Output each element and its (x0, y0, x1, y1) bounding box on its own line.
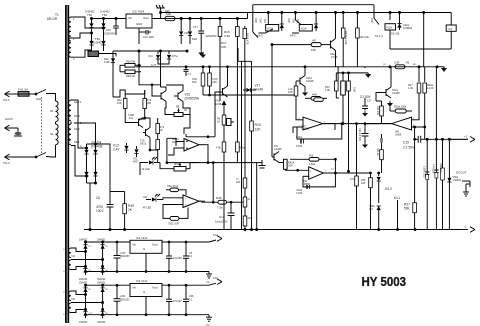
secondary top taps (71, 17, 85, 21)
resistor R4A (123, 94, 127, 118)
switch SA1a (31, 90, 52, 95)
AUX SUPPLY BLOCK A (79, 233, 222, 284)
svg-text:N1: N1 (50, 109, 54, 113)
mid-right columns x338/343/349/358 (337, 67, 339, 81)
resistor R51 (341, 12, 345, 67)
svg-text:(NC): (NC) (260, 18, 263, 23)
op-amp OA3 left-pointing (385, 117, 418, 130)
resistor R7A (143, 90, 147, 118)
main secondary taps to bridge (71, 100, 87, 148)
relay K2A box2 (299, 25, 312, 32)
wire drop right (373, 5, 375, 18)
relay K4 pins (450, 13, 452, 50)
svg-text:4R-C4b: 4R-C4b (360, 35, 369, 39)
wire y202 R45 (201, 201, 218, 203)
svg-text:C16 100n: C16 100n (143, 35, 155, 39)
junction dots cluster (144, 117, 146, 119)
svg-text:OMP: OMP (172, 141, 178, 144)
LED V11 (146, 194, 163, 202)
svg-text:43R: 43R (166, 12, 171, 16)
ground C17 (198, 50, 204, 56)
small part Y2 (380, 134, 383, 143)
svg-text:GND: GND (136, 22, 142, 26)
cap on x427 (425, 172, 429, 180)
cap C36 (183, 284, 189, 315)
sense resistor R10b (208, 66, 212, 95)
svg-text:10R: 10R (288, 165, 293, 168)
OA3 wires (418, 101, 419, 120)
svg-text:12V: 12V (213, 233, 218, 237)
resistor R24 (380, 143, 384, 174)
aux winding A (69, 248, 71, 258)
svg-text:W1a: W1a (174, 163, 180, 166)
vertical x442.5 (442, 139, 444, 229)
cap C17 (198, 19, 204, 51)
switch K4-4 (374, 18, 379, 25)
aux A bottom rail (86, 271, 210, 273)
junction x272 (271, 44, 273, 46)
aux A top rail (86, 241, 210, 243)
rail B y18.5 regulator out (152, 18, 248, 20)
svg-text:(R1): (R1) (213, 81, 218, 84)
svg-text:K4.2: K4.2 (385, 187, 392, 191)
svg-text:Vout: Vout (152, 286, 158, 290)
cap C19 (414, 136, 468, 143)
wire y73 (336, 72, 368, 74)
aux winding B (69, 291, 71, 301)
svg-text:2.2 50V: 2.2 50V (403, 146, 415, 150)
vertical x139 (138, 51, 140, 72)
bridge junctions (86, 147, 88, 149)
svg-text:C17: C17 (367, 100, 372, 103)
wire y67 cap C18 (184, 66, 189, 76)
svg-text:G: G (143, 290, 145, 294)
svg-text:2200/35V: 2200/35V (104, 32, 115, 36)
svg-text:1N4002: 1N4002 (79, 278, 88, 281)
resistor R42 (166, 188, 183, 192)
bridge bottom out (87, 182, 96, 184)
svg-text:R8: R8 (176, 105, 180, 109)
svg-text:50K: 50K (404, 207, 411, 211)
svg-text:0.3R: 0.3R (394, 62, 399, 65)
wire x423 drop (423, 12, 425, 67)
zener V13 (124, 143, 128, 153)
ground arrow y73 (365, 73, 371, 78)
vertical x427 (426, 139, 428, 229)
bridge diode D2 (93, 150, 97, 154)
chassis ground mid (258, 160, 266, 168)
svg-text:N1: N1 (50, 132, 54, 136)
relay K2A box1 pins (267, 12, 269, 25)
junction dots rail y51 (138, 50, 140, 52)
svg-text:DC-CB: DC-CB (391, 32, 399, 36)
svg-text:CL: CL (206, 280, 210, 284)
svg-text:1N4002: 1N4002 (79, 239, 88, 242)
svg-text:47R/16V: 47R/16V (432, 164, 435, 174)
cap C13 (228, 201, 246, 229)
jack ground (463, 190, 469, 196)
vertical x436.4 full (435, 67, 437, 230)
cap C31 (166, 241, 172, 272)
vertical x272 (271, 45, 273, 157)
transistor V20A (328, 39, 336, 51)
svg-text:R19: R19 (255, 123, 261, 127)
relay K2A box2 pins (294, 12, 301, 25)
svg-text:C19: C19 (403, 141, 409, 145)
terminal DC+ (449, 137, 475, 143)
switch K4-3b (259, 29, 274, 33)
svg-text:K4.1: K4.1 (394, 196, 401, 200)
IC3 gnd pin (145, 253, 147, 272)
resistor R33 on x370 (369, 172, 373, 229)
svg-text:200: 200 (236, 181, 241, 184)
primary winding N1 upper (56, 101, 59, 122)
cap 2.2 50V top (362, 98, 368, 110)
resistor R22 (380, 101, 384, 116)
terminal XS2 (AC in bottom) (5, 154, 10, 160)
bridge vertical 1 (86, 144, 88, 183)
svg-text:1K: 1K (184, 108, 187, 112)
dashed link SA1 (41, 97, 43, 153)
svg-text:(2N3055A: (2N3055A (185, 97, 200, 101)
V20A collector wire (335, 12, 337, 39)
wire OA1 input stubs (176, 142, 180, 147)
regulator U2 7824 (126, 14, 152, 28)
svg-text:R45: R45 (216, 196, 222, 200)
OA4 out wire (335, 172, 370, 174)
svg-text:N4148: N4148 (254, 88, 264, 92)
regulator IC3 (130, 240, 162, 253)
svg-text:Vout: Vout (143, 16, 149, 20)
cap C34 (114, 284, 121, 315)
zener V16 (179, 19, 183, 45)
primary winding N1 lower (56, 124, 59, 145)
transistor V24 (272, 152, 279, 163)
resistor R45 (218, 200, 245, 204)
bridge diode D3 (84, 172, 88, 176)
long vertical x241.5 (241, 61, 243, 229)
svg-text:IC5 7824: IC5 7824 (132, 10, 145, 14)
svg-text:14.4K: 14.4K (427, 87, 434, 90)
svg-text:12R: 12R (361, 182, 366, 185)
resistor R13 (294, 81, 298, 101)
switch under box2 (292, 32, 299, 34)
zener V15 (188, 19, 192, 45)
vertical x113 (112, 51, 114, 97)
svg-text:3.9K: 3.9K (353, 87, 356, 92)
long vertical x251.5 (251, 61, 253, 229)
svg-text:LM358: LM358 (302, 127, 310, 130)
long vertical x256.7 (256, 163, 258, 230)
op-amp OA1 (180, 139, 205, 152)
regulator IC4 (130, 284, 162, 297)
ground arrow OA3 top (387, 101, 393, 107)
wire sense to OA2 (203, 94, 296, 101)
top rectifier column 2 (103, 19, 105, 52)
zener V14 (156, 51, 160, 62)
svg-text:N5: N5 (72, 297, 76, 301)
vertical x120 stub (119, 65, 121, 72)
svg-text:IC4 7a12: IC4 7a12 (136, 279, 148, 283)
svg-text:4.8k: 4.8k (216, 147, 221, 150)
IC4 gnd pin (145, 297, 147, 316)
svg-text:4R: 4R (248, 217, 251, 220)
sense resistor R10a (201, 66, 205, 95)
bridge vertical 2 (95, 144, 97, 183)
wire T2A emitter down (149, 138, 151, 151)
op-amp OA2 (297, 117, 335, 130)
wire x272 to R29 (272, 44, 306, 46)
svg-text:4007: 4007 (133, 161, 139, 164)
resistor R19 (250, 121, 254, 131)
mid rail y51 (113, 50, 187, 52)
wire drop left (252, 5, 254, 32)
transistor T1A (135, 118, 143, 128)
svg-text:DB-DR: DB-DR (47, 17, 58, 21)
svg-text:SA1: SA1 (36, 97, 42, 101)
junction dots top rect (91, 18, 93, 20)
resistor R41A vertical (284, 159, 288, 170)
svg-text:7.5k: 7.5k (217, 206, 223, 210)
svg-text:LM05: LM05 (395, 133, 402, 136)
svg-text:V14: V14 (148, 54, 153, 58)
svg-text:4148: 4148 (104, 61, 110, 64)
switch K4-3a (253, 32, 258, 38)
wire R18 (290, 158, 335, 160)
ground C11 (362, 142, 368, 148)
svg-text:R50A 47R: R50A 47R (246, 33, 249, 45)
aux winding A taps (71, 248, 86, 252)
resistor R14 horizontal (305, 97, 327, 101)
cap C15 (113, 18, 119, 36)
resistor R12 (236, 120, 240, 163)
wire tap cross (85, 21, 104, 28)
transistor V21A (296, 76, 305, 87)
fuse FU1 (17, 92, 31, 97)
fuse R26 (165, 16, 175, 20)
svg-text:2.4V: 2.4V (113, 148, 120, 152)
resistor R43 (166, 217, 184, 221)
vertical x449.4 (448, 139, 450, 229)
cap C30 (114, 241, 121, 272)
resistor Y200 (243, 178, 247, 188)
resistor R9 (222, 115, 226, 125)
svg-text:R22 10k: R22 10k (376, 106, 379, 116)
svg-text:XS-2: XS-2 (3, 161, 10, 165)
svg-text:24V: 24V (264, 18, 267, 23)
vertical x224 (223, 109, 225, 230)
wire y162 (140, 163, 145, 176)
resistor R11 (222, 142, 226, 152)
svg-text:(NO): (NO) (255, 18, 258, 23)
svg-text:Vout: Vout (152, 243, 158, 247)
aux B diode col 2 (101, 285, 105, 318)
cap C6 (107, 192, 114, 230)
bottom rail dots (89, 229, 91, 231)
svg-text:R10: R10 (192, 81, 197, 84)
op-amp OA4 (285, 167, 335, 180)
svg-text:10R: 10R (288, 91, 293, 94)
bridge diode D4 (93, 172, 97, 176)
svg-text:C1088: C1088 (392, 92, 400, 95)
output jack (462, 181, 470, 190)
relay K2A box3 (385, 24, 396, 30)
bridge diode D1 (84, 150, 88, 154)
diode D21 (89, 23, 93, 27)
cap C11 (362, 124, 369, 142)
relay K2A box1 (266, 25, 279, 32)
svg-text:C17: C17 (193, 25, 198, 29)
fuse 0.3R on y67 (395, 65, 405, 69)
svg-text:C15: C15 (106, 28, 111, 32)
antenna/earth symbol (156, 5, 165, 19)
resistor R2B (120, 70, 141, 74)
diode LL7 on x378 (377, 177, 381, 203)
svg-text:0.033: 0.033 (296, 145, 303, 148)
cap C16B (307, 185, 310, 189)
svg-text:0.033: 0.033 (296, 192, 303, 195)
svg-text:1008: 1008 (215, 102, 222, 106)
wire y192 (110, 191, 125, 193)
wire T2A collector up (145, 118, 150, 128)
resistor R20a horizontal (390, 109, 412, 113)
bridge block box (88, 51, 99, 57)
resistor RB2 (341, 73, 346, 125)
wire R42 loop (183, 190, 186, 195)
zener V15b (167, 51, 171, 62)
svg-text:DCOUT: DCOUT (456, 171, 467, 175)
svg-text:4F LED: 4F LED (143, 207, 152, 210)
svg-text:D613: D613 (140, 143, 147, 146)
transistor V22a (157, 91, 166, 102)
svg-text:CT06: CT06 (331, 55, 338, 59)
svg-text:F12: F12 (129, 117, 134, 120)
switch K4.1 stub (397, 200, 399, 230)
switch SA1b (11, 153, 52, 158)
transistor V25 (382, 87, 391, 98)
svg-text:+1: +1 (464, 135, 468, 139)
top rail from rectifier to regulator (92, 18, 127, 20)
aux A diode col 2 (101, 242, 105, 275)
regulator gnd pin (138, 28, 140, 44)
V21A collector (304, 66, 306, 76)
zener V5xa (377, 206, 381, 230)
svg-text:1N4002: 1N4002 (97, 278, 106, 281)
feedback vertical x166.9 (166, 138, 176, 163)
svg-text:FU1 5A: FU1 5A (18, 88, 28, 92)
svg-text:(NO): (NO) (288, 18, 291, 23)
diode V17 (243, 88, 256, 92)
cap on x436 (434, 170, 438, 178)
cap C32 (183, 241, 189, 272)
OA1 drive wire to V18 (186, 134, 215, 138)
wire R43 loop (163, 205, 178, 219)
ground small mid (200, 52, 206, 58)
svg-text:W2a: W2a (240, 147, 246, 150)
svg-text:4V7a: 4V7a (172, 54, 179, 58)
svg-text:R2B 1R: R2B 1R (126, 75, 135, 78)
aux B bottom rail (86, 314, 210, 316)
wire OA1 output right (205, 145, 209, 164)
svg-text:1K: 1K (217, 121, 220, 124)
svg-text:12V: 12V (213, 276, 218, 280)
resistor R39 (123, 192, 127, 230)
svg-text:4.80a: 4.80a (309, 163, 316, 166)
aux B gnd (206, 315, 212, 322)
OA3 out wire (382, 116, 386, 124)
wire to primary top (52, 94, 56, 102)
svg-text:1N4002: 1N4002 (79, 282, 88, 285)
svg-text:12K: 12K (255, 128, 262, 132)
svg-text:Vin: Vin (132, 243, 136, 247)
svg-text:T5A: T5A (87, 13, 92, 17)
resistor R29 (306, 43, 328, 47)
svg-text:Vin: Vin (128, 16, 132, 20)
top rectifier column 1 (91, 19, 93, 52)
wire x390 drop (389, 12, 391, 50)
svg-text:C11 2.2 50V: C11 2.2 50V (358, 128, 361, 142)
bridge pos wire to C6 (96, 144, 111, 192)
svg-text:0.1: 0.1 (188, 73, 192, 76)
wires around V22 (113, 90, 125, 97)
resistor R20b (423, 67, 427, 101)
wire rect out (99, 54, 117, 57)
transistor V18 (215, 66, 228, 137)
V24 emitter wire (279, 159, 285, 162)
svg-text:K4-3: K4-3 (257, 34, 263, 38)
wire primary mid (55, 122, 57, 124)
rail B end drop (247, 13, 249, 19)
svg-text:2.2 50V: 2.2 50V (360, 95, 372, 99)
wire OA5 out (199, 200, 201, 202)
resistor R8A (156, 140, 160, 163)
transformer T1 core (66, 5, 68, 323)
wire LED to pot (160, 163, 170, 169)
secondary winding main (N3) (68, 100, 71, 121)
V20A emitter wire (335, 51, 337, 67)
svg-text:4F LED: 4F LED (142, 168, 151, 171)
ground under cap (362, 111, 368, 117)
junction y67 dots (418, 66, 420, 68)
wire V22 collector top (161, 51, 184, 91)
resistor on x442.5 (441, 168, 445, 180)
svg-text:R38 10R: R38 10R (439, 163, 442, 173)
resistor R2A (120, 64, 141, 68)
aux winding A mid tap (78, 259, 103, 261)
svg-text:+470/16V: +470/16V (172, 300, 183, 303)
diode V9 (111, 56, 115, 65)
op-amp OA5 (178, 195, 205, 208)
diode D24 (101, 41, 105, 45)
diode V12 (134, 146, 138, 157)
svg-text:C8A 171A: C8A 171A (167, 185, 179, 188)
svg-text:-1: -1 (464, 225, 467, 229)
plug symbol (14, 128, 22, 136)
svg-text:3.3K: 3.3K (224, 34, 230, 38)
bracket top middle verticals (238, 48, 252, 61)
svg-text:100V: 100V (96, 209, 104, 213)
long vertical x245 with resistors (244, 61, 246, 229)
switch K4.2 (378, 172, 380, 176)
aux B terminal (209, 279, 222, 285)
svg-text:+470/16V: +470/16V (172, 257, 183, 260)
up arrow symbol (222, 101, 227, 109)
svg-text:T5A: T5A (102, 13, 107, 17)
svg-text:R18: R18 (309, 154, 314, 157)
svg-text:N2-2: N2-2 (74, 127, 80, 131)
svg-text:R50A 13.0R: R50A 13.0R (344, 31, 347, 45)
svg-text:K4-1-3: K4-1-3 (375, 34, 383, 38)
